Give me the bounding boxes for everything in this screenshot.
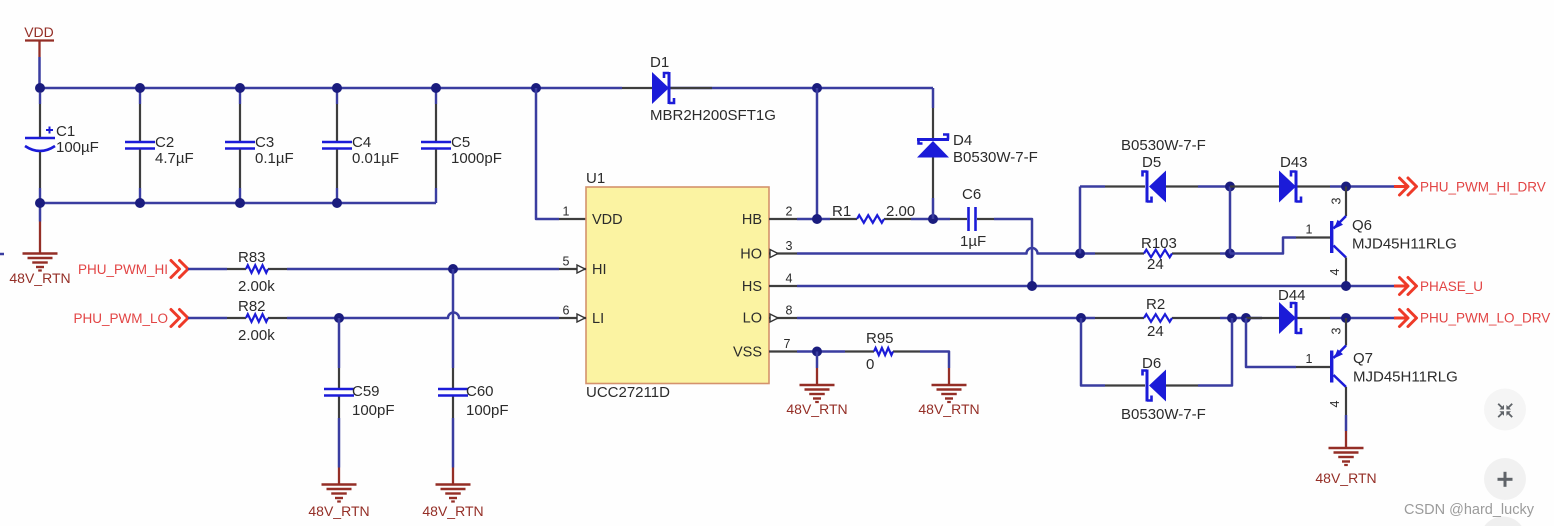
svg-text:5: 5 [563, 255, 570, 269]
junction [1341, 281, 1351, 291]
svg-text:4: 4 [1328, 268, 1342, 275]
junction [1075, 249, 1085, 259]
svg-text:3: 3 [1330, 197, 1344, 204]
transistor Q6 [1296, 187, 1346, 287]
wire [920, 352, 949, 369]
svg-text:R95: R95 [866, 330, 894, 347]
svg-text:C4: C4 [352, 134, 371, 151]
svg-text:1µF: 1µF [960, 233, 986, 250]
wire [1079, 187, 1082, 254]
svg-text:C59: C59 [352, 383, 380, 400]
wire [1330, 317, 1394, 320]
svg-text:U1: U1 [586, 170, 605, 187]
wire [932, 88, 935, 108]
svg-text:PHU_PWM_LO: PHU_PWM_LO [73, 311, 168, 326]
wire [1345, 415, 1348, 431]
svg-text:100pF: 100pF [352, 402, 395, 419]
diode D44 [1246, 317, 1330, 319]
wire [797, 218, 830, 221]
svg-text:3: 3 [786, 239, 793, 253]
svg-text:R82: R82 [238, 298, 266, 315]
junction [332, 198, 342, 208]
ui button fit-view [1484, 389, 1526, 431]
svg-text:C1: C1 [56, 123, 75, 140]
junction [334, 313, 344, 323]
ground [800, 385, 835, 402]
svg-text:LI: LI [592, 311, 604, 327]
power port VDD [24, 24, 54, 57]
svg-text:2.00k: 2.00k [238, 278, 275, 295]
svg-text:0.1µF: 0.1µF [255, 150, 294, 167]
junction [812, 347, 822, 357]
svg-text:2.00k: 2.00k [238, 327, 275, 344]
wire [188, 268, 227, 271]
svg-text:C6: C6 [962, 186, 981, 203]
junction [1076, 313, 1086, 323]
wire [1229, 187, 1232, 254]
capacitor C59 [338, 368, 340, 418]
svg-text:4.7µF: 4.7µF [155, 150, 194, 167]
junction [235, 198, 245, 208]
svg-text:C2: C2 [155, 134, 174, 151]
port chevron [1394, 185, 1406, 188]
wire with hop [287, 313, 559, 319]
junction [812, 214, 822, 224]
resistor R1 [830, 215, 911, 223]
diode D1 [622, 87, 712, 89]
wire [39, 203, 42, 222]
wire [797, 285, 1394, 288]
ground [436, 485, 471, 502]
svg-text:0.01µF: 0.01µF [352, 150, 399, 167]
svg-text:VDD: VDD [592, 212, 623, 228]
wire [797, 350, 845, 353]
port chevron [1394, 285, 1406, 288]
capacitor C4 [322, 88, 352, 203]
svg-text:48V_RTN: 48V_RTN [422, 503, 483, 519]
wire [1198, 318, 1232, 386]
svg-text:R83: R83 [238, 249, 266, 266]
svg-text:B0530W-7-F: B0530W-7-F [1121, 137, 1206, 154]
resistor R82 [227, 314, 287, 322]
svg-text:R1: R1 [832, 203, 851, 220]
wire with hop [797, 248, 1095, 253]
junction [448, 264, 458, 274]
svg-text:PHU_PWM_HI_DRV: PHU_PWM_HI_DRV [1420, 180, 1546, 195]
wire [797, 317, 1095, 320]
svg-text:MBR2H200SFT1G: MBR2H200SFT1G [650, 107, 776, 124]
svg-text:D1: D1 [650, 54, 669, 71]
transistor Q7 [1296, 318, 1346, 415]
svg-text:7: 7 [784, 337, 791, 351]
ground [932, 385, 967, 402]
capacitor C5 [421, 88, 451, 203]
svg-text:D5: D5 [1142, 154, 1161, 171]
svg-text:4: 4 [786, 272, 793, 286]
svg-text:2.00: 2.00 [886, 203, 915, 220]
svg-text:8: 8 [786, 304, 793, 318]
svg-text:MJD45H11RLG: MJD45H11RLG [1353, 369, 1458, 386]
svg-text:PHU_PWM_HI: PHU_PWM_HI [78, 262, 168, 277]
junction [135, 83, 145, 93]
pin 3 [769, 239, 797, 254]
svg-text:C3: C3 [255, 134, 274, 151]
pin 4 [769, 272, 797, 287]
capacitor C2 [125, 88, 155, 203]
svg-text:VDD: VDD [24, 24, 54, 40]
svg-text:48V_RTN: 48V_RTN [786, 401, 847, 417]
svg-text:D4: D4 [953, 132, 972, 149]
svg-text:HI: HI [592, 262, 607, 278]
resistor R2 [1095, 314, 1220, 322]
junction [135, 198, 145, 208]
pin 6 [559, 304, 586, 323]
wire [1230, 238, 1296, 254]
svg-text:HB: HB [742, 212, 762, 228]
svg-text:VSS: VSS [733, 345, 762, 361]
junction [1341, 313, 1351, 323]
svg-text:3: 3 [1330, 327, 1344, 334]
wire [948, 367, 951, 370]
wire [536, 88, 559, 219]
ground [322, 485, 357, 502]
capacitor C3 [225, 88, 255, 203]
pin 8 [769, 304, 797, 319]
svg-text:MJD45H11RLG: MJD45H11RLG [1352, 236, 1457, 253]
wire [932, 198, 935, 219]
junction [812, 83, 822, 93]
wire [338, 318, 341, 368]
svg-text:B0530W-7-F: B0530W-7-F [1121, 406, 1206, 423]
svg-text:2: 2 [786, 205, 793, 219]
wire [911, 218, 950, 221]
wire [0, 253, 4, 256]
diode D5 [1105, 185, 1198, 187]
wire [188, 317, 227, 320]
diode D4 [917, 108, 949, 198]
ground [1329, 448, 1364, 465]
junction [1225, 182, 1235, 192]
svg-text:D44: D44 [1278, 287, 1306, 304]
port chevron [171, 310, 188, 327]
wire [38, 57, 41, 88]
pin 1 [559, 205, 586, 220]
svg-text:R103: R103 [1141, 235, 1177, 252]
resistor R95 [845, 348, 920, 355]
svg-text:CSDN @hard_lucky: CSDN @hard_lucky [1404, 502, 1535, 518]
wire [338, 418, 341, 468]
port chevron [171, 261, 188, 278]
svg-text:C60: C60 [466, 383, 494, 400]
wire [40, 87, 622, 90]
svg-text:100pF: 100pF [466, 402, 509, 419]
svg-text:1: 1 [1306, 223, 1313, 237]
svg-text:4: 4 [1328, 400, 1342, 407]
wire [816, 352, 819, 369]
wire [287, 268, 559, 271]
svg-text:1: 1 [1306, 352, 1313, 366]
wire [1220, 317, 1262, 320]
junction [332, 83, 342, 93]
svg-text:LO: LO [743, 311, 762, 327]
svg-text:1: 1 [563, 205, 570, 219]
svg-text:1000pF: 1000pF [451, 150, 502, 167]
ui button partial [1480, 517, 1526, 526]
svg-text:D43: D43 [1280, 154, 1308, 171]
svg-text:Q6: Q6 [1352, 217, 1372, 234]
junction [431, 83, 441, 93]
svg-text:24: 24 [1147, 323, 1164, 340]
svg-text:B0530W-7-F: B0530W-7-F [953, 149, 1038, 166]
wire [1198, 185, 1230, 188]
wire [669, 87, 933, 90]
junction [1027, 281, 1037, 291]
ground [23, 254, 58, 271]
svg-text:48V_RTN: 48V_RTN [9, 270, 70, 286]
junction [1227, 313, 1237, 323]
svg-text:100µF: 100µF [56, 139, 99, 156]
op-amp U1 UCC27211D body [586, 187, 769, 384]
svg-text:24: 24 [1147, 256, 1164, 273]
svg-text:Q7: Q7 [1353, 350, 1373, 367]
svg-text:D6: D6 [1142, 355, 1161, 372]
wire [1330, 185, 1394, 188]
wire [40, 202, 436, 205]
wire [1246, 318, 1296, 367]
pin 2 [769, 205, 797, 220]
capacitor C6 [950, 207, 994, 231]
wire [816, 88, 819, 219]
svg-text:C5: C5 [451, 134, 470, 151]
svg-text:48V_RTN: 48V_RTN [308, 503, 369, 519]
svg-text:0: 0 [866, 356, 874, 373]
svg-text:6: 6 [563, 304, 570, 318]
junction [35, 198, 45, 208]
capacitor C1 [25, 93, 55, 203]
ui button zoom-in [1484, 458, 1526, 500]
diode D43 [1230, 185, 1330, 187]
resistor R103 [1095, 250, 1220, 258]
wire [994, 219, 1032, 286]
resistor R83 [227, 265, 287, 273]
wire [1081, 318, 1105, 386]
svg-text:48V_RTN: 48V_RTN [918, 401, 979, 417]
junction [1341, 182, 1351, 192]
svg-text:PHU_PWM_LO_DRV: PHU_PWM_LO_DRV [1420, 311, 1550, 326]
junction [1225, 249, 1235, 259]
junction [531, 83, 541, 93]
diode D6 [1105, 384, 1198, 386]
svg-text:HO: HO [740, 247, 762, 263]
pin 7 [769, 337, 797, 352]
wire [452, 269, 455, 368]
svg-text:UCC27211D: UCC27211D [586, 384, 670, 401]
wire [1220, 252, 1230, 255]
capacitor C60 [452, 368, 454, 418]
port chevron [1394, 317, 1406, 320]
svg-text:R2: R2 [1146, 296, 1165, 313]
svg-text:48V_RTN: 48V_RTN [1315, 470, 1376, 486]
junction [1241, 313, 1251, 323]
wire [452, 418, 455, 468]
pin 5 [559, 255, 586, 274]
junction [235, 83, 245, 93]
junction [35, 83, 45, 93]
svg-text:PHASE_U: PHASE_U [1420, 279, 1483, 294]
junction [928, 214, 938, 224]
svg-text:HS: HS [742, 279, 762, 295]
wire [1080, 185, 1105, 188]
